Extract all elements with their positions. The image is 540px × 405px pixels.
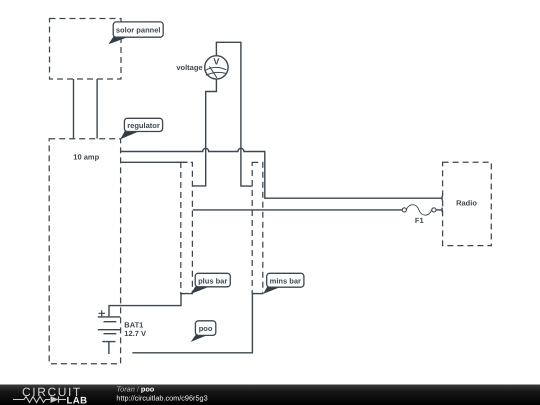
callout solor pannel <box>108 22 163 44</box>
battery BAT1 bottom terminal <box>102 342 115 354</box>
wire plus bar to fuse <box>193 209 403 211</box>
svg-text:regulator: regulator <box>127 121 160 130</box>
svg-text:Radio: Radio <box>456 198 477 207</box>
voltmeter circle <box>205 56 228 79</box>
svg-text:V: V <box>213 57 219 67</box>
callout regulator <box>120 118 162 139</box>
wire B regulator to plus bar <box>121 161 188 163</box>
wire voltmeter left to plus bar <box>193 79 217 186</box>
svg-text:F1: F1 <box>415 216 424 225</box>
svg-text:12.7 V: 12.7 V <box>124 329 146 338</box>
svg-text:solor pannel: solor pannel <box>116 25 161 34</box>
pin tick radio bottom <box>441 208 443 213</box>
wire solar left <box>73 79 75 139</box>
svg-text:plus bar: plus bar <box>198 276 227 285</box>
svg-text:10 amp: 10 amp <box>73 152 99 161</box>
svg-text:LAB: LAB <box>67 396 88 405</box>
solar panel box <box>50 19 122 80</box>
callout poo <box>191 321 216 342</box>
svg-text:voltage: voltage <box>176 63 202 72</box>
wire A regulator to radio <box>121 148 442 198</box>
callout plus bar <box>191 273 231 294</box>
wire battery plus to plus bar <box>109 294 189 317</box>
svg-text:mins bar: mins bar <box>270 276 301 285</box>
footer bar <box>0 385 540 405</box>
mins bar box <box>252 162 263 293</box>
svg-text:Toran / poo: Toran / poo <box>116 384 154 393</box>
regulator 10 amp box <box>49 139 120 364</box>
callout mins bar <box>263 273 304 294</box>
wire solar right <box>96 79 98 139</box>
svg-text:http://circuitlab.com/c96r5g3: http://circuitlab.com/c96r5g3 <box>116 394 207 403</box>
fuse F1 <box>402 208 406 212</box>
battery plus sign <box>99 310 105 316</box>
voltmeter needle <box>209 66 217 78</box>
svg-text:poo: poo <box>199 324 213 333</box>
circuitlab logo resistor diode squiggle <box>13 396 66 402</box>
radio box <box>443 162 492 245</box>
battery BAT1 plates <box>98 317 121 334</box>
plus bar box <box>181 162 193 293</box>
voltmeter scale arcs <box>205 67 226 70</box>
wire mins bar to battery bottom <box>132 294 260 353</box>
pin tick radio top <box>441 196 443 200</box>
wire voltmeter right to mins bar <box>216 42 252 186</box>
wire fuse to radio <box>436 209 442 211</box>
